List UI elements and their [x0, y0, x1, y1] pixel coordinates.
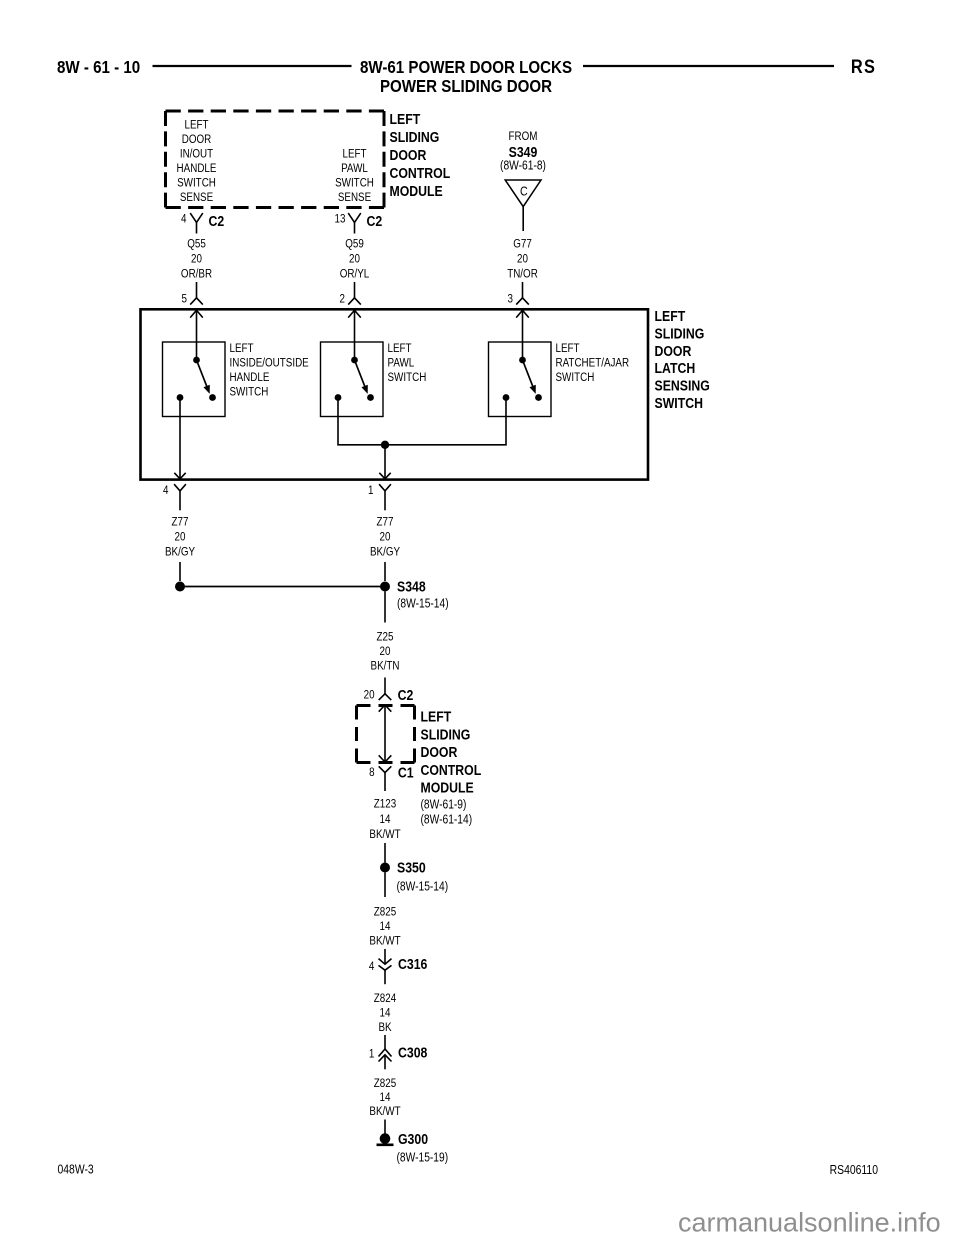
pin label: left door in/out handle switch sense: [177, 119, 217, 205]
svg-text:3: 3: [508, 293, 513, 306]
svg-text:MODULE: MODULE: [390, 183, 443, 199]
svg-text:G300: G300: [398, 1131, 428, 1147]
switch label: LEFT PAWL SWITCH: [388, 342, 427, 384]
wire Z77 stub right: [384, 562, 386, 581]
svg-text:C2: C2: [209, 213, 225, 229]
switch assembly box: left sliding door latch sensing switch: [141, 309, 649, 479]
svg-text:1: 1: [368, 484, 373, 497]
wire stub into C316: [384, 949, 386, 964]
svg-text:2: 2: [340, 293, 345, 306]
svg-text:BK/WT: BK/WT: [369, 935, 400, 948]
svg-text:OR/BR: OR/BR: [181, 268, 212, 281]
switch S3 left ratchet/ajar switch: [489, 342, 552, 417]
svg-text:PAWL: PAWL: [341, 162, 368, 175]
svg-text:FROM: FROM: [509, 130, 538, 143]
svg-text:LEFT: LEFT: [556, 342, 580, 355]
connector half (pin 5) fork: [190, 298, 203, 305]
switch label: LEFT RATCHET/AJAR SWITCH: [556, 342, 630, 384]
off-page connector symbol S349 (triangle C): [505, 180, 541, 207]
wire Z77 stub left: [179, 562, 181, 581]
wire label Z77 20 BK/GY (right): [370, 516, 401, 559]
svg-text:20: 20: [349, 253, 360, 266]
svg-text:SLIDING: SLIDING: [655, 325, 705, 341]
svg-text:INSIDE/OUTSIDE: INSIDE/OUTSIDE: [230, 357, 309, 370]
wire from S3 to internal bus: [385, 398, 506, 445]
svg-text:14: 14: [380, 920, 391, 933]
connector C1 pin 8 fork symbol: [379, 766, 392, 791]
svg-text:(8W-61-14): (8W-61-14): [421, 814, 473, 827]
svg-text:DOOR: DOOR: [655, 343, 692, 359]
svg-text:RS406110: RS406110: [830, 1163, 879, 1177]
module name: LEFT SLIDING DOOR CONTROL MODULE: [390, 111, 451, 199]
module U1: left sliding door control module (dashed outline, top): [166, 111, 385, 208]
wire segment into latch switch (pin 3): [522, 282, 524, 298]
svg-text:Z825: Z825: [374, 1077, 396, 1090]
svg-text:DOOR: DOOR: [182, 133, 212, 146]
wire stub into C308: [384, 1035, 386, 1049]
svg-text:4: 4: [181, 213, 186, 226]
svg-text:LEFT: LEFT: [342, 148, 366, 161]
svg-text:4: 4: [163, 484, 168, 497]
connector C2 pin 4 symbol: [190, 213, 203, 233]
svg-text:S349: S349: [509, 144, 538, 160]
wire label Z825 14 BK/WT (lower): [369, 1077, 400, 1118]
svg-text:Z77: Z77: [377, 516, 394, 529]
connector pin 1 fork symbol: [379, 484, 391, 510]
svg-text:8W-61 POWER DOOR LOCKS: 8W-61 POWER DOOR LOCKS: [360, 57, 572, 78]
module U1 pass-through: left sliding door control module (dashed outline, lower): [357, 706, 415, 763]
svg-text:IN/OUT: IN/OUT: [180, 148, 214, 161]
svg-text:SWITCH: SWITCH: [177, 177, 216, 190]
wire entry arrow into box (column 2): [348, 310, 361, 360]
svg-text:C2: C2: [398, 687, 414, 703]
wire from bus junction to pin 1 exit: [379, 445, 390, 479]
svg-text:(8W-15-14): (8W-15-14): [397, 881, 449, 894]
svg-text:POWER SLIDING DOOR: POWER SLIDING DOOR: [380, 76, 552, 97]
svg-text:20: 20: [380, 645, 391, 658]
module name: LEFT SLIDING DOOR CONTROL MODULE (lower): [421, 708, 482, 826]
svg-text:SENSE: SENSE: [180, 191, 213, 204]
svg-text:Z123: Z123: [374, 798, 396, 811]
wire Z123 stub to S350: [384, 843, 386, 863]
svg-text:20: 20: [364, 689, 375, 702]
svg-text:14: 14: [380, 1007, 391, 1020]
svg-text:SWITCH: SWITCH: [556, 371, 595, 384]
internal pass-through wire with arrows: [379, 705, 392, 762]
wire segment into latch switch (pin 5): [196, 282, 198, 298]
connector C308 symbol (fork into arrow): [379, 1049, 392, 1069]
svg-text:HANDLE: HANDLE: [177, 162, 217, 175]
svg-text:LEFT: LEFT: [184, 119, 208, 132]
svg-text:BK/TN: BK/TN: [371, 660, 400, 673]
svg-text:SWITCH: SWITCH: [230, 386, 269, 399]
wire label Q55 20 OR/BR: [181, 238, 212, 281]
ground G300 symbol: [377, 1133, 394, 1145]
svg-text:C2: C2: [367, 213, 383, 229]
svg-text:BK/WT: BK/WT: [369, 1105, 400, 1118]
svg-text:(8W-15-19): (8W-15-19): [397, 1152, 449, 1165]
wire Z25 stub to C2 pin 20: [384, 678, 386, 694]
svg-text:MODULE: MODULE: [421, 780, 474, 796]
splice dot S348: [380, 582, 390, 592]
header rule left: [153, 65, 352, 67]
wire label Z77 20 BK/GY (left): [165, 516, 196, 559]
switch label: LEFT INSIDE/OUTSIDE HANDLE SWITCH: [230, 342, 309, 399]
wire label Z825 14 BK/WT: [369, 906, 400, 948]
svg-text:C: C: [520, 183, 528, 198]
svg-text:LEFT: LEFT: [655, 308, 686, 324]
svg-text:PAWL: PAWL: [388, 357, 415, 370]
pin label: left pawl switch sense: [335, 148, 374, 205]
svg-text:SLIDING: SLIDING: [390, 129, 440, 145]
splice dot left: [175, 582, 185, 592]
svg-text:C316: C316: [398, 956, 428, 972]
svg-text:Q59: Q59: [345, 238, 364, 251]
svg-text:20: 20: [380, 531, 391, 544]
switch S2 left pawl switch: [321, 342, 384, 417]
assembly name: LEFT SLIDING DOOR LATCH SENSING SWITCH: [655, 308, 710, 411]
connector C2 pin 20 fork symbol: [379, 694, 392, 700]
svg-text:BK/WT: BK/WT: [369, 828, 400, 841]
svg-text:5: 5: [182, 293, 187, 306]
svg-text:HANDLE: HANDLE: [230, 371, 270, 384]
svg-text:Z77: Z77: [172, 516, 189, 529]
svg-text:1: 1: [369, 1048, 374, 1061]
wire entry arrow into box (column 3): [516, 310, 529, 360]
svg-text:Z25: Z25: [377, 631, 394, 644]
svg-text:S348: S348: [397, 578, 426, 594]
svg-text:DOOR: DOOR: [421, 744, 458, 760]
svg-text:(8W-61-8): (8W-61-8): [500, 160, 546, 173]
svg-text:LEFT: LEFT: [230, 342, 254, 355]
svg-text:CONTROL: CONTROL: [421, 762, 482, 778]
junction on internal bus: [381, 441, 389, 449]
svg-text:20: 20: [175, 531, 186, 544]
wire label Z25 20 BK/TN: [371, 631, 400, 673]
svg-text:SLIDING: SLIDING: [421, 726, 471, 742]
svg-text:8: 8: [369, 766, 374, 779]
svg-text:13: 13: [335, 213, 346, 226]
wire label Q59 20 OR/YL: [340, 238, 370, 281]
connector half (pin 3) fork: [516, 298, 529, 305]
svg-text:4: 4: [369, 960, 374, 973]
svg-text:SENSE: SENSE: [338, 191, 371, 204]
svg-text:G77: G77: [513, 238, 532, 251]
svg-text:14: 14: [380, 1091, 391, 1104]
svg-text:048W-3: 048W-3: [58, 1162, 95, 1176]
svg-text:LATCH: LATCH: [655, 360, 696, 376]
svg-text:Z824: Z824: [374, 992, 396, 1005]
wire from S1 to pin 4 exit: [174, 398, 185, 479]
connector half (pin 2) fork: [348, 298, 361, 305]
svg-text:S350: S350: [397, 859, 426, 875]
svg-text:SWITCH: SWITCH: [655, 395, 703, 411]
svg-text:LEFT: LEFT: [388, 342, 412, 355]
svg-text:RS: RS: [851, 56, 876, 78]
wire stub to ground: [384, 1120, 386, 1134]
svg-text:SWITCH: SWITCH: [388, 371, 427, 384]
connector C2 pin 13 symbol: [348, 213, 361, 233]
svg-text:DOOR: DOOR: [390, 147, 427, 163]
svg-text:RATCHET/AJAR: RATCHET/AJAR: [556, 357, 630, 370]
wire Z825 segment below S350: [384, 873, 386, 898]
svg-text:LEFT: LEFT: [421, 708, 452, 724]
svg-text:BK/GY: BK/GY: [370, 546, 401, 559]
header rule right: [583, 65, 834, 67]
svg-text:Z825: Z825: [374, 906, 396, 919]
wire label Z824 14 BK: [374, 992, 396, 1034]
svg-text:20: 20: [191, 253, 202, 266]
svg-text:carmanualsonline.info: carmanualsonline.info: [678, 1208, 941, 1238]
svg-text:LEFT: LEFT: [390, 111, 421, 127]
wire Z25 segment: [384, 592, 386, 623]
svg-text:(8W-15-14): (8W-15-14): [397, 598, 449, 611]
svg-text:C308: C308: [398, 1044, 428, 1060]
label: FROM S349 (8W-61-8): [500, 130, 546, 173]
svg-text:Q55: Q55: [187, 238, 206, 251]
wire entry arrow into box (column 1): [190, 310, 203, 360]
svg-text:14: 14: [380, 813, 391, 826]
svg-text:SWITCH: SWITCH: [335, 177, 374, 190]
wire from S2 to internal bus: [338, 398, 385, 445]
svg-text:OR/YL: OR/YL: [340, 268, 370, 281]
connector pin 4 fork symbol: [174, 484, 186, 510]
svg-text:20: 20: [517, 253, 528, 266]
wire G77 stub from S349: [522, 207, 524, 231]
splice S350: [380, 863, 390, 873]
svg-text:8W - 61 - 10: 8W - 61 - 10: [57, 57, 140, 78]
svg-text:TN/OR: TN/OR: [507, 268, 538, 281]
wire label G77 20 TN/OR: [507, 238, 538, 281]
svg-text:CONTROL: CONTROL: [390, 165, 451, 181]
splice S348 bus line: [180, 586, 385, 588]
svg-text:C1: C1: [398, 764, 414, 780]
svg-text:(8W-61-9): (8W-61-9): [421, 799, 467, 812]
connector C316 symbol (arrow into fork): [379, 959, 392, 985]
wire segment into latch switch (pin 2): [354, 282, 356, 298]
wire label Z123 14 BK/WT: [369, 798, 400, 842]
svg-text:BK/GY: BK/GY: [165, 546, 196, 559]
svg-text:BK: BK: [378, 1021, 392, 1034]
switch S1 left inside/outside handle switch: [163, 342, 226, 417]
svg-text:SENSING: SENSING: [655, 377, 710, 393]
